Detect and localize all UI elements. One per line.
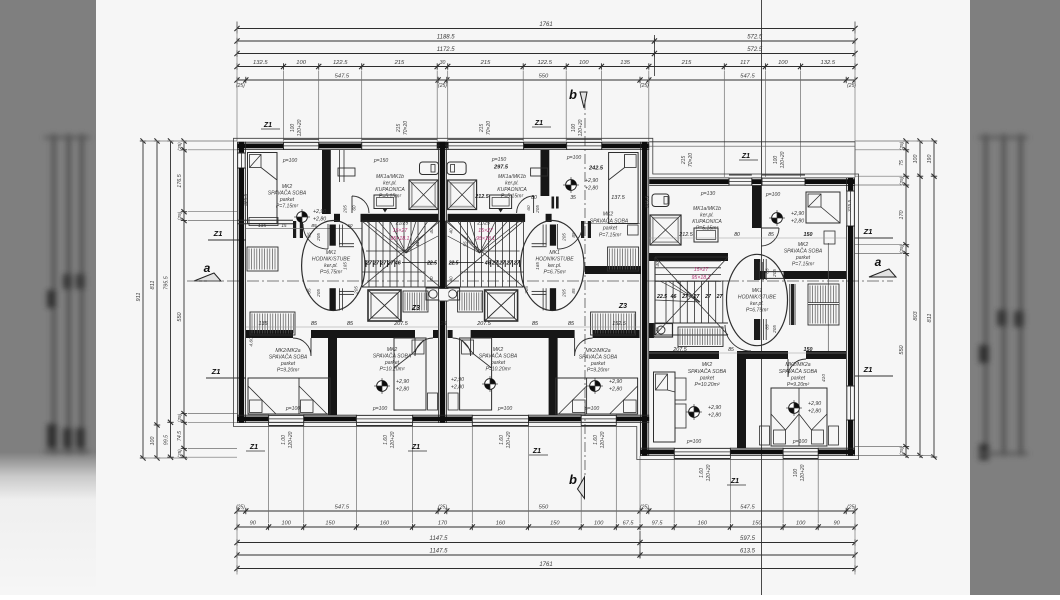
- unit1 bottom bedroom door arcs: [293, 338, 311, 356]
- svg-text:135: 135: [620, 60, 630, 66]
- svg-text:613.5: 613.5: [740, 549, 756, 555]
- svg-text:205: 205: [524, 286, 529, 295]
- svg-text:p=100: p=100: [686, 439, 701, 445]
- svg-text:120+20: 120+20: [506, 431, 512, 448]
- unit3 hallway middle wall stubs: [754, 259, 760, 280]
- svg-text:85: 85: [307, 232, 312, 238]
- svg-text:1188.5: 1188.5: [437, 35, 456, 41]
- svg-text:40: 40: [449, 228, 454, 234]
- svg-text:325.5: 325.5: [847, 200, 853, 212]
- svg-text:160: 160: [698, 521, 708, 527]
- unit1 bottom level mark: [377, 381, 388, 392]
- unit2 interior wall hall/bedrooms horizontal: [448, 330, 453, 338]
- svg-text:242.5: 242.5: [588, 166, 604, 172]
- unit3 bottom-left bedroom shelf strip: [675, 378, 686, 400]
- svg-text:95×18.1: 95×18.1: [476, 236, 495, 242]
- svg-text:+2,90: +2,90: [808, 401, 821, 407]
- svg-text:SPAVAČA SOBA: SPAVAČA SOBA: [373, 353, 412, 360]
- svg-text:205: 205: [562, 289, 567, 298]
- svg-text:parket: parket: [384, 360, 400, 366]
- unit1 stair treads: [361, 221, 363, 287]
- unit2 bathroom toilet: [447, 162, 466, 175]
- unit1 bathroom shelf: [338, 168, 355, 176]
- svg-text:MK2: MK2: [702, 362, 713, 368]
- svg-text:100: 100: [796, 521, 806, 527]
- svg-text:+2,90: +2,90: [609, 379, 622, 385]
- svg-text:911: 911: [136, 293, 142, 302]
- outer wall bottom unit3: [640, 447, 674, 449]
- svg-text:803: 803: [913, 310, 919, 320]
- svg-text:120+20: 120+20: [706, 464, 712, 481]
- svg-text:+2,80: +2,80: [451, 385, 464, 391]
- svg-text:120+20: 120+20: [578, 119, 584, 136]
- unit3 bedroom bottom wall: [756, 271, 846, 279]
- svg-text:ker.pl.: ker.pl.: [383, 181, 397, 187]
- svg-text:MK1: MK1: [752, 288, 763, 294]
- parapet ledges above top wall: [284, 138, 319, 140]
- window sill ledges below bottom wall unit3: [674, 458, 730, 460]
- unit3 extension line through closet: [827, 243, 829, 351]
- svg-text:27: 27: [693, 294, 701, 300]
- unit1 wall between bottom bedrooms: [328, 338, 337, 415]
- svg-text:120+20: 120+20: [780, 151, 786, 168]
- svg-text:215: 215: [396, 124, 402, 134]
- svg-text:MK2: MK2: [387, 347, 398, 353]
- bottom dimension row 25/547.5/25/550/25/547.5/25: [237, 510, 855, 512]
- left strip line-1 911: [140, 140, 146, 142]
- top dimension row 25/547.5/25/550/25/547.5/25: [237, 79, 855, 81]
- unit1 bottom-right bedroom bed: [394, 338, 426, 410]
- left dimension strip vertical lines: [142, 141, 144, 458]
- svg-text:ker.pl.: ker.pl.: [505, 181, 519, 187]
- svg-text:+2,90: +2,90: [313, 209, 326, 215]
- svg-text:Z1: Z1: [863, 227, 873, 236]
- svg-text:p=100: p=100: [765, 192, 780, 198]
- svg-text:85: 85: [571, 232, 576, 238]
- right strip line-3 190/811: [931, 140, 937, 142]
- unit1 bathroom washbasin: [374, 195, 396, 209]
- svg-text:1761: 1761: [539, 22, 552, 28]
- svg-text:205: 205: [316, 233, 321, 242]
- unit2 bathroom shelf: [531, 168, 548, 176]
- svg-text:MK2/MK2a: MK2/MK2a: [275, 348, 300, 354]
- unit3 interior wall hall/bedrooms horizontal: [649, 351, 719, 359]
- svg-text:+2,90: +2,90: [791, 211, 804, 217]
- svg-text:MK2: MK2: [798, 242, 809, 248]
- unit3 stair treads lower flight vertical: [665, 281, 667, 323]
- svg-text:(25): (25): [177, 211, 183, 220]
- svg-text:(25): (25): [177, 413, 183, 422]
- right strip line-1 segments: [903, 140, 909, 142]
- svg-text:P=10.20m²: P=10.20m²: [379, 367, 404, 373]
- svg-text:85: 85: [347, 321, 354, 327]
- lower ledge line right of units 1-2: [639, 423, 641, 456]
- unit3 stairwell outline: [655, 256, 728, 258]
- svg-text:KUPAONICA: KUPAONICA: [497, 187, 527, 193]
- svg-text:150: 150: [325, 521, 335, 527]
- unit3 closet hatch below stairs: [678, 327, 723, 347]
- left strip line-4 segment ticks and labels: [181, 140, 187, 142]
- svg-text:parket: parket: [590, 361, 606, 367]
- svg-text:SPAVAČA SOBA: SPAVAČA SOBA: [784, 248, 823, 255]
- svg-text:p=100: p=100: [792, 439, 807, 445]
- bottom dimension row of opening segments: [237, 526, 855, 528]
- unit2 void shaft with X: [485, 290, 518, 321]
- svg-text:90: 90: [250, 521, 257, 527]
- svg-text:120+20: 120+20: [390, 431, 396, 448]
- long vertical reference line: [136, 0, 937, 595]
- svg-text:165: 165: [343, 262, 348, 270]
- svg-text:100: 100: [773, 156, 779, 165]
- svg-text:4.60: 4.60: [249, 337, 255, 347]
- window sill ledges below bottom wall units 1-2: [269, 425, 304, 427]
- unit3 bathroom bottom wall: [649, 253, 728, 261]
- top dimension row of facade segments: [237, 66, 855, 68]
- svg-text:40: 40: [655, 261, 660, 267]
- svg-text:205: 205: [772, 325, 777, 334]
- svg-text:122.5: 122.5: [333, 60, 348, 66]
- svg-text:MK2/MK2a: MK2/MK2a: [785, 362, 810, 368]
- unit3 wall between bottom bedrooms: [737, 359, 746, 448]
- svg-text:85: 85: [765, 268, 770, 274]
- svg-text:120+20: 120+20: [800, 464, 806, 481]
- svg-text:60: 60: [526, 205, 531, 211]
- unit3 bathroom shower with X: [650, 215, 681, 245]
- svg-text:170: 170: [438, 521, 448, 527]
- svg-text:P=10.20m²: P=10.20m²: [485, 367, 510, 373]
- unit2 hallway middle wall stubs: [550, 225, 556, 246]
- svg-text:550: 550: [539, 74, 549, 80]
- svg-text:1.60: 1.60: [699, 468, 705, 478]
- left strip line-2 811/100: [154, 140, 160, 142]
- svg-text:100: 100: [778, 60, 788, 66]
- unit3 bedroom door arc: [761, 228, 779, 246]
- svg-text:P=6.75m²: P=6.75m²: [320, 270, 343, 276]
- unit1 bathroom bottom wall band: [361, 214, 439, 222]
- svg-text:100: 100: [793, 469, 799, 478]
- unit3 wc toilet circle: [657, 326, 665, 334]
- svg-text:ker.pl.: ker.pl.: [324, 263, 338, 269]
- svg-text:137.5: 137.5: [611, 195, 625, 201]
- svg-text:1.00: 1.00: [281, 435, 287, 445]
- unit2 bathroom door arc: [517, 196, 534, 213]
- unit3 interior wall bath/bedroom vertical: [752, 186, 761, 228]
- svg-text:+2,90: +2,90: [708, 405, 721, 411]
- svg-text:215: 215: [681, 156, 687, 166]
- bottom dimension row total 1761: [237, 568, 855, 570]
- svg-text:100: 100: [913, 155, 919, 164]
- unit2 bathroom door leaf: [552, 197, 555, 209]
- svg-text:170: 170: [899, 211, 905, 220]
- svg-text:410: 410: [821, 374, 827, 382]
- svg-text:160: 160: [380, 521, 390, 527]
- top dimension row 1172.5 / 572.5: [237, 53, 855, 55]
- svg-text:MK1: MK1: [326, 250, 337, 256]
- svg-text:ker.pl.: ker.pl.: [700, 213, 714, 219]
- unit2 stair walking line: [461, 271, 524, 273]
- unit1 hallway middle wall stubs: [330, 225, 336, 246]
- building outer offset outline: [234, 138, 859, 459]
- unit3 top bedroom closet hatch: [808, 284, 839, 325]
- section line a horizontal dash-dot: [187, 280, 893, 282]
- svg-text:15×27: 15×27: [694, 267, 710, 273]
- svg-text:P=5.15m²: P=5.15m²: [379, 194, 402, 200]
- svg-text:550: 550: [539, 505, 549, 511]
- unit1 void shaft with X: [368, 290, 401, 321]
- svg-text:parket: parket: [699, 376, 715, 382]
- right dimension strip vertical lines: [905, 141, 907, 458]
- svg-text:120+20: 120+20: [297, 119, 303, 136]
- svg-text:SPAVAČA SOBA: SPAVAČA SOBA: [269, 354, 308, 361]
- unit2 bottom bedroom door arcs: [575, 338, 593, 356]
- svg-text:132.5: 132.5: [821, 60, 836, 66]
- svg-text:P=5.15m²: P=5.15m²: [501, 194, 524, 200]
- svg-text:a: a: [204, 261, 211, 275]
- svg-text:1172.5: 1172.5: [437, 47, 456, 53]
- svg-text:35: 35: [570, 195, 576, 201]
- unit2 bedroom door posts: [588, 221, 591, 238]
- svg-text:85: 85: [571, 288, 576, 294]
- unit1 bedroom1 door arc: [303, 224, 328, 249]
- svg-text:parket: parket: [795, 255, 811, 261]
- svg-text:P=9.20m²: P=9.20m²: [787, 382, 810, 388]
- svg-text:+2,80: +2,80: [808, 409, 821, 415]
- svg-text:MK2: MK2: [493, 347, 504, 353]
- svg-text:95×18.1: 95×18.1: [391, 236, 410, 242]
- svg-text:15×27: 15×27: [478, 228, 494, 234]
- svg-text:207.5: 207.5: [476, 321, 491, 327]
- svg-text:85: 85: [728, 347, 734, 353]
- unit2 bottom-right bedroom bed: [460, 338, 492, 410]
- top extension lines from facade to dimension rows: [283, 71, 285, 142]
- unit2 closet hatch upper near left wall: [608, 247, 639, 271]
- unit1 dims row above hallway: [246, 228, 362, 230]
- svg-text:547.5: 547.5: [335, 74, 350, 80]
- svg-text:22.5: 22.5: [448, 261, 459, 267]
- svg-text:(25): (25): [899, 141, 905, 150]
- svg-text:95×18.1: 95×18.1: [692, 275, 711, 281]
- svg-text:+2,80: +2,80: [791, 219, 804, 225]
- svg-text:SPAVAČA SOBA: SPAVAČA SOBA: [688, 368, 727, 375]
- unit2 stair winder diagonals: [446, 221, 524, 287]
- svg-text:207.5: 207.5: [672, 347, 687, 353]
- svg-text:21/25: 21/25: [395, 221, 409, 227]
- svg-text:120+20: 120+20: [600, 431, 606, 448]
- unit1 closet hatch upper near left wall: [247, 247, 278, 271]
- svg-text:75: 75: [899, 160, 905, 166]
- unit3 wall between hall and closet: [789, 284, 791, 325]
- svg-text:795.5: 795.5: [164, 275, 170, 289]
- unit1 stair walking line: [362, 271, 425, 273]
- unit3 bottom bedroom door arcs: [725, 325, 751, 351]
- unit1 stairwell outline: [361, 221, 363, 287]
- svg-text:100: 100: [296, 60, 306, 66]
- unit1 niche side lines: [339, 150, 341, 182]
- svg-text:547.5: 547.5: [335, 505, 350, 511]
- svg-text:(25): (25): [640, 505, 649, 511]
- unit3 bottom-right double bed: [771, 388, 827, 446]
- svg-text:+2,80: +2,80: [396, 387, 409, 393]
- svg-text:99.5: 99.5: [164, 435, 170, 445]
- svg-text:325.5: 325.5: [243, 194, 249, 206]
- unit2 top bedroom bed: [609, 153, 639, 224]
- unit2 interior wall bedroom1/bath vertical: [541, 150, 550, 196]
- unit2 stair landing mid line: [480, 250, 520, 252]
- svg-text:P=6.75m²: P=6.75m²: [746, 308, 769, 314]
- unit1 bathroom shower with X: [409, 180, 438, 210]
- svg-text:100: 100: [282, 521, 292, 527]
- svg-text:1147.5: 1147.5: [430, 549, 449, 555]
- svg-text:P=7.15m²: P=7.15m²: [792, 262, 815, 268]
- svg-text:212.5: 212.5: [474, 194, 489, 200]
- unit2 bottom-left bedroom twin beds: [556, 378, 638, 414]
- unit1 bathroom door arc: [352, 196, 369, 213]
- svg-text:b: b: [569, 472, 577, 487]
- svg-text:85: 85: [768, 232, 774, 238]
- svg-text:27: 27: [704, 294, 712, 300]
- svg-text:Z1: Z1: [411, 444, 420, 451]
- svg-text:(25): (25): [438, 505, 447, 511]
- svg-text:(25): (25): [899, 446, 905, 455]
- svg-text:p=100: p=100: [497, 406, 512, 412]
- svg-text:(25): (25): [640, 83, 649, 89]
- svg-text:215: 215: [681, 60, 692, 66]
- svg-text:120+20: 120+20: [288, 431, 294, 448]
- svg-text:135: 135: [259, 321, 269, 327]
- svg-text:b: b: [569, 87, 577, 102]
- svg-text:70×20: 70×20: [486, 121, 492, 135]
- outer wall top units 1-2: [237, 141, 284, 143]
- svg-text:547.5: 547.5: [740, 505, 755, 511]
- svg-text:46: 46: [670, 294, 677, 300]
- svg-text:P=7.15m²: P=7.15m²: [599, 233, 622, 239]
- svg-text:205: 205: [535, 205, 540, 214]
- unit3 stair diagonals: [655, 257, 728, 335]
- svg-text:p=130: p=130: [700, 191, 715, 197]
- unit1 bedroom thin bottom wall: [237, 219, 293, 221]
- facade notch between units at top: [437, 142, 448, 146]
- svg-text:85: 85: [311, 321, 318, 327]
- unit1 bedroom door posts: [293, 221, 296, 238]
- right strip line-2 100/803: [917, 140, 923, 142]
- svg-text:+2,80: +2,80: [708, 413, 721, 419]
- svg-text:P=7.15m²: P=7.15m²: [276, 204, 299, 210]
- bottom extension lines: [268, 423, 270, 523]
- svg-text:74.5: 74.5: [177, 431, 183, 441]
- svg-text:ker.pl.: ker.pl.: [548, 263, 562, 269]
- svg-text:MK1: MK1: [549, 250, 560, 256]
- svg-text:40: 40: [429, 228, 434, 234]
- svg-text:90: 90: [833, 521, 840, 527]
- svg-text:Z1: Z1: [532, 448, 541, 455]
- unit3 top bedroom nightstand: [824, 231, 835, 244]
- svg-text:P=6.75m²: P=6.75m²: [543, 270, 566, 276]
- svg-text:60: 60: [352, 205, 357, 211]
- svg-text:+2,90: +2,90: [451, 377, 464, 383]
- unit2 stair treads: [460, 221, 462, 287]
- svg-text:1.60: 1.60: [593, 435, 599, 445]
- svg-text:Z1: Z1: [211, 367, 221, 376]
- svg-text:Z3: Z3: [618, 303, 627, 310]
- unit1 closet hatch below stairs: [403, 291, 428, 312]
- svg-text:parket: parket: [279, 197, 295, 203]
- svg-text:MK1a/MK1b: MK1a/MK1b: [498, 174, 526, 180]
- svg-text:40: 40: [449, 276, 454, 282]
- top dimension row total 1761: [237, 28, 855, 30]
- svg-text:parket: parket: [790, 376, 806, 382]
- svg-text:205: 205: [354, 286, 359, 295]
- svg-text:100: 100: [150, 437, 156, 446]
- unit1 closet hatch lower near left wall: [250, 312, 295, 335]
- svg-text:547.5: 547.5: [740, 74, 755, 80]
- unit3 top bedroom bed: [806, 192, 840, 223]
- outer wall bottom units 1-2: [237, 414, 269, 416]
- svg-text:212.5: 212.5: [678, 232, 693, 238]
- unit3 bottom-right nightstands: [760, 426, 770, 445]
- unit1 stair landing mid line: [366, 250, 406, 252]
- unit1 interior wall bedroom1/bath vertical: [322, 150, 331, 214]
- party wall niche at washer boxes: [439, 289, 448, 302]
- unit1 washer box with circle: [426, 288, 440, 300]
- svg-text:550: 550: [899, 344, 905, 354]
- party wall unit2/unit3: [640, 142, 642, 456]
- bottom dimension row 1147.5 / 613.5: [237, 554, 855, 556]
- svg-text:85: 85: [307, 288, 312, 294]
- svg-text:152.5: 152.5: [612, 321, 626, 327]
- svg-text:40: 40: [429, 276, 434, 282]
- unit2 top bedroom nightstand: [628, 225, 639, 235]
- unit3 bathroom toilet: [652, 194, 669, 207]
- svg-text:KUPAONICA: KUPAONICA: [375, 187, 405, 193]
- svg-text:parket: parket: [280, 361, 296, 367]
- unit3 level mark top: [772, 213, 783, 224]
- svg-text:HODNIK/STUBE: HODNIK/STUBE: [535, 257, 574, 263]
- svg-text:85: 85: [765, 324, 770, 330]
- svg-text:SPAVAČA SOBA: SPAVAČA SOBA: [479, 353, 518, 360]
- svg-text:p=100: p=100: [584, 406, 599, 412]
- unit3 wc room below stairs: [649, 323, 654, 338]
- svg-text:Z3: Z3: [411, 305, 420, 312]
- unit1 bathroom toilet: [420, 162, 439, 175]
- svg-text:100: 100: [290, 124, 296, 133]
- svg-text:176.5: 176.5: [177, 173, 183, 187]
- unit2 bathroom washbasin: [490, 195, 512, 209]
- unit2 wall between bottom bedrooms: [549, 338, 558, 415]
- unit1 hallway door leaves: [339, 243, 354, 245]
- svg-text:+2,80: +2,80: [609, 387, 622, 393]
- svg-text:p=150: p=150: [373, 158, 388, 164]
- svg-text:P=9.20m²: P=9.20m²: [587, 368, 610, 374]
- svg-text:215: 215: [394, 60, 405, 66]
- svg-text:100: 100: [594, 521, 604, 527]
- svg-text:Z1: Z1: [863, 365, 873, 374]
- svg-text:27: 27: [716, 294, 724, 300]
- svg-text:MK1a/MK1b: MK1a/MK1b: [376, 174, 404, 180]
- unit1 interior wall hall/bedrooms horizontal: [246, 330, 293, 338]
- svg-text:297.5: 297.5: [493, 165, 509, 171]
- unit2 stairwell outline: [445, 221, 447, 287]
- svg-text:160: 160: [496, 521, 506, 527]
- unit3 hallway door leaves: [759, 262, 761, 280]
- svg-text:55: 55: [415, 241, 420, 247]
- svg-text:117: 117: [740, 60, 750, 66]
- svg-text:97.5: 97.5: [652, 521, 664, 527]
- svg-text:21/25: 21/25: [476, 221, 490, 227]
- svg-text:207.5: 207.5: [393, 321, 408, 327]
- svg-text:+2,80: +2,80: [585, 186, 598, 192]
- right bar blurred smudge lines: [978, 134, 1028, 460]
- svg-text:572.5: 572.5: [747, 47, 763, 53]
